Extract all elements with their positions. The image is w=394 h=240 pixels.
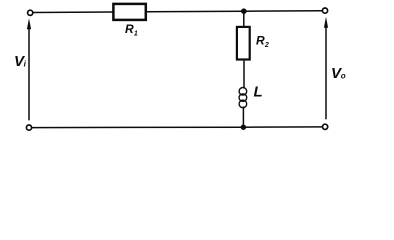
- wire R1 to node A: [147, 10, 244, 13]
- resistor R2: [237, 27, 250, 60]
- svg-text:R: R: [125, 22, 134, 36]
- svg-text:R: R: [256, 34, 265, 48]
- wire bottom (input terminal to node B): [32, 126, 243, 128]
- terminal bottom-left (open circle): [26, 125, 31, 130]
- node B (bottom junction dot): [241, 125, 246, 130]
- voltage arrow Vi (head): [27, 18, 31, 29]
- node A (top junction dot): [241, 8, 247, 14]
- voltage arrow Vo (head): [324, 17, 328, 28]
- wire R2 to inductor L: [243, 61, 245, 89]
- wire top-left (input terminal to R1): [33, 11, 113, 14]
- voltage arrow Vi (line): [28, 28, 30, 121]
- resistor R1: [113, 4, 145, 20]
- svg-text:o: o: [341, 72, 346, 81]
- svg-text:1: 1: [134, 31, 138, 38]
- voltage arrow Vo (line): [325, 27, 327, 120]
- inductor L (coil loops): [239, 88, 247, 108]
- svg-text:L: L: [254, 83, 263, 100]
- terminal top-right (open circle): [322, 8, 327, 13]
- svg-text:2: 2: [264, 42, 269, 49]
- terminal bottom-right (open circle): [323, 124, 328, 129]
- wire node B to output terminal: [243, 126, 322, 128]
- wire node A down to R2: [243, 11, 245, 26]
- wire inductor L to node B: [242, 107, 244, 128]
- wire node A to output terminal: [244, 10, 322, 13]
- terminal top-left (open circle): [28, 10, 33, 15]
